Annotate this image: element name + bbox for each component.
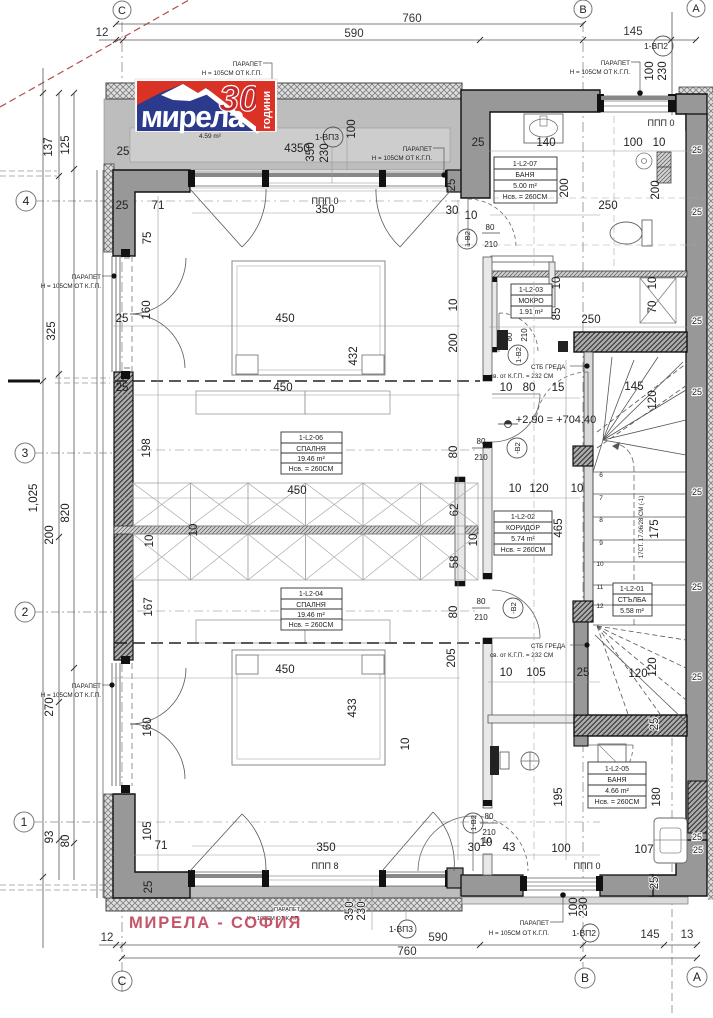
parapet label top-right [570,60,631,76]
svg-text:7: 7 [599,495,603,502]
bath1 ducts [657,152,671,167]
svg-text:КОРИДОР: КОРИДОР [506,525,540,532]
south wall of bedroom 2 : window band [188,868,463,888]
corridor/bath2 thin wall [488,715,576,723]
upper winder fan [593,357,686,472]
svg-text:70: 70 [647,301,659,314]
VP circles [323,36,673,942]
mokro east wall [549,262,555,307]
south parapet crosshatch [106,898,462,911]
parapet label top-left [202,61,263,77]
west door arcs bottom window [130,668,186,779]
svg-text:СПАЛНЯ: СПАЛНЯ [296,446,326,453]
left axis circles [14,191,36,832]
bath2 [588,762,646,808]
STB GREDA labels [490,364,566,659]
svg-text:120: 120 [529,483,548,495]
svg-text:19.46 m²: 19.46 m² [297,612,325,619]
svg-text:-В2: -В2 [513,442,522,454]
svg-text:19.46 m²: 19.46 m² [297,456,325,463]
svg-text:СТБ ГРЕДА: СТБ ГРЕДА [531,643,566,650]
svg-text:ПАРАПЕТ: ПАРАПЕТ [72,683,101,690]
svg-text:200: 200 [44,525,56,544]
svg-text:Н = 105СМ ОТ К.Г.П.: Н = 105СМ ОТ К.Г.П. [489,930,550,937]
bedroom1 [281,432,342,474]
left small guide dashes [0,171,110,890]
svg-text:200: 200 [559,178,571,197]
svg-text:450: 450 [287,485,306,497]
svg-text:100: 100 [644,61,656,80]
svg-text:МИРЕЛА - СОФИЯ: МИРЕЛА - СОФИЯ [129,914,302,932]
svg-text:230: 230 [356,901,368,920]
svg-text:25: 25 [692,207,702,217]
svg-text:210: 210 [474,613,488,622]
mid partition hatched wall between bedrooms [114,526,478,534]
svg-text:105: 105 [526,667,545,679]
east wall white niche in bath2 [688,781,707,833]
top right window [600,96,676,112]
svg-text:св. от К.Г.П. = 232 СМ: св. от К.Г.П. = 232 СМ [490,373,553,380]
stair west wall thin [584,352,593,622]
svg-text:12: 12 [101,932,114,944]
svg-text:160: 160 [142,717,154,736]
svg-text:25: 25 [116,382,129,394]
axis circles top [113,0,705,19]
svg-text:Нсв. = 260СМ: Нсв. = 260СМ [289,622,334,629]
svg-text:120: 120 [647,390,659,409]
svg-text:11: 11 [597,584,604,591]
svg-text:760: 760 [402,13,421,25]
north parapet crosshatch [106,83,462,99]
west door arcs top window [124,258,186,368]
svg-text:Нсв. = 260СМ: Нсв. = 260СМ [501,547,546,554]
parapet label left-upper [41,274,102,290]
svg-text:25: 25 [649,877,661,890]
svg-text:80: 80 [505,332,514,341]
bottom dimension rows [99,945,697,958]
svg-text:1-L2-04: 1-L2-04 [299,591,323,598]
svg-text:1-В2: 1-В2 [469,815,478,831]
svg-text:Нсв. = 260СМ: Нсв. = 260СМ [503,194,548,201]
svg-text:+2.90 = +704.40: +2.90 = +704.40 [516,414,596,426]
svg-text:10: 10 [551,277,563,290]
svg-text:80: 80 [486,223,495,232]
svg-text:450: 450 [275,313,294,325]
axis circles bottom [112,967,707,991]
svg-text:80: 80 [448,446,460,459]
red boundary dashed line [0,0,189,107]
svg-text:10: 10 [448,299,460,312]
svg-text:210: 210 [474,453,488,462]
svg-text:180: 180 [651,787,663,806]
corridor door to bedroom2 south [418,816,528,871]
bath2 cabinet [654,818,687,863]
svg-text:590: 590 [428,932,447,944]
svg-text:250: 250 [598,200,617,212]
bath2 door [588,745,633,790]
svg-text:80: 80 [485,812,494,821]
interior dimension guide lines [113,130,707,930]
hatched slab wall under bathroom1 [489,271,687,277]
svg-text:760: 760 [397,946,416,958]
svg-text:1-ВП3: 1-ВП3 [389,924,413,934]
mokro west wall [489,277,497,352]
cabinets along dashed line bedroom1 [196,391,390,414]
bath2 west wall [574,622,588,715]
svg-text:10: 10 [647,277,659,290]
svg-text:25: 25 [692,387,702,397]
svg-text:17СТ. 17.06/28 СМ (-1): 17СТ. 17.06/28 СМ (-1) [639,496,645,558]
svg-text:25: 25 [692,316,702,326]
svg-text:6: 6 [599,472,603,479]
svg-text:10: 10 [653,137,666,149]
svg-text:ПАРАПЕТ: ПАРАПЕТ [274,907,301,913]
svg-text:Н = 105СМ ОТ К.Г.П.: Н = 105СМ ОТ К.Г.П. [570,69,631,76]
entry door from stair [536,372,588,424]
mokro [511,284,552,318]
south bedroom2 door arcs [190,812,454,871]
svg-text:25: 25 [446,179,458,192]
axis guide lines across plan [118,201,600,822]
svg-text:A: A [692,3,700,15]
bedroom2 [281,588,342,630]
svg-text:10: 10 [480,837,493,849]
north wall of bedroom 1 : window band [188,170,463,192]
svg-text:C: C [118,5,126,17]
south wall right section [461,875,523,896]
stair X box [640,278,676,323]
svg-text:125: 125 [60,135,72,154]
svg-text:25: 25 [117,146,130,158]
west wall hatched between windows [114,372,133,660]
svg-text:Н = 105СМ ОТ К.Г.П.: Н = 105СМ ОТ К.Г.П. [41,283,102,290]
svg-text:БАНЯ: БАНЯ [607,777,626,784]
svg-text:ПАРАПЕТ: ПАРАПЕТ [403,146,432,153]
NE corner [679,87,713,94]
svg-text:820: 820 [60,503,72,522]
west window 1 (top) [112,256,120,372]
svg-text:1-L2-06: 1-L2-06 [299,435,323,442]
svg-text:1-L2-05: 1-L2-05 [605,766,629,773]
svg-text:години: години [261,91,273,129]
parapet label bottom-center-left [246,907,300,922]
svg-text:230: 230 [578,897,590,916]
svg-text:85: 85 [551,308,563,321]
svg-text:5.74 m²: 5.74 m² [511,536,535,543]
svg-text:1,025: 1,025 [28,484,40,513]
svg-text:145: 145 [623,26,642,38]
svg-text:1-L2-07: 1-L2-07 [513,161,537,168]
south terrace strip [135,886,460,899]
svg-text:13: 13 [681,929,694,941]
svg-text:450: 450 [273,382,292,394]
svg-text:58: 58 [449,556,461,569]
svg-text:25: 25 [692,832,702,842]
svg-text:25: 25 [116,313,129,325]
svg-text:12: 12 [96,27,109,39]
svg-text:205: 205 [446,648,458,667]
west parapet thin lines [97,170,103,898]
svg-text:71: 71 [155,840,168,852]
svg-text:30: 30 [219,78,259,119]
bath1 [494,157,557,203]
svg-text:325: 325 [46,321,58,340]
svg-text:80: 80 [477,437,486,446]
svg-text:БАНЯ: БАНЯ [515,172,534,179]
svg-text:1-ВП3: 1-ВП3 [315,132,339,142]
svg-text:10: 10 [596,561,604,568]
svg-text:9: 9 [599,540,603,547]
svg-text:МОКРО: МОКРО [518,298,544,305]
svg-text:10: 10 [500,382,513,394]
svg-text:350: 350 [344,901,356,920]
svg-text:25: 25 [692,145,702,155]
corridor west wall segments [483,257,492,875]
bath1 sink [524,114,563,143]
svg-text:140: 140 [536,137,555,149]
axis C vertical [122,12,672,1014]
svg-text:10: 10 [500,667,513,679]
svg-text:ПАРАПЕТ: ПАРАПЕТ [233,61,262,68]
svg-text:Н = 105СМ ОТ К.Г.П.: Н = 105СМ ОТ К.Г.П. [41,692,102,699]
parapet label left-lower [41,683,102,699]
svg-text:25: 25 [116,200,129,212]
step numbers [596,472,604,610]
svg-text:10: 10 [465,210,478,222]
svg-text:СПАЛНЯ: СПАЛНЯ [296,602,326,609]
svg-text:195: 195 [553,787,565,806]
left vertical dimension chains [43,68,74,948]
svg-text:200: 200 [448,333,460,352]
svg-text:10: 10 [571,483,584,495]
svg-text:25: 25 [692,582,702,592]
door 80/210 fraction labels [472,223,529,845]
svg-text:ПАРАПЕТ: ПАРАПЕТ [601,60,630,67]
svg-text:1-L2-02: 1-L2-02 [511,514,535,521]
svg-text:10: 10 [188,524,200,537]
parapet label top-center [372,146,433,162]
svg-text:B: B [579,4,586,16]
svg-text:1-ВП2: 1-ВП2 [572,928,596,938]
svg-text:Н = 105СМ ОТ К.Г.П.: Н = 105СМ ОТ К.Г.П. [372,155,433,162]
north terrace grey floor [104,99,462,170]
stair west wall hatched blocks [573,446,593,466]
svg-text:80: 80 [477,597,486,606]
parapet label bottom-right [489,920,550,937]
wardrobe divider wall in bedrooms [455,477,465,586]
stair [613,583,652,616]
lower fan dashed [597,626,686,714]
svg-text:1-В2: 1-В2 [463,231,472,247]
svg-text:Н = 105СМ ОТ К.Г.П.: Н = 105СМ ОТ К.Г.П. [202,70,263,77]
svg-text:432: 432 [348,346,360,365]
bath1 drain [636,153,652,169]
bed bedroom1 [232,261,385,375]
top dimension rows [99,24,697,40]
svg-text:СТБ ГРЕДА: СТБ ГРЕДА [531,364,566,371]
interior dim texts [116,137,666,893]
svg-text:198: 198 [141,438,153,457]
svg-text:167: 167 [143,597,155,616]
svg-text:270: 270 [44,697,56,716]
svg-text:450: 450 [275,664,294,676]
corridor door to bedroom1 [492,394,540,442]
svg-text:100: 100 [623,137,642,149]
SW corner wall [104,794,114,898]
stair top hatched wall [574,332,687,352]
svg-text:1-ВП2: 1-ВП2 [644,41,668,51]
svg-text:93: 93 [44,831,56,844]
svg-text:145: 145 [624,381,643,393]
svg-text:1-L2-03: 1-L2-03 [519,287,543,294]
svg-text:B: B [581,971,589,985]
svg-text:120: 120 [647,657,659,676]
svg-text:80: 80 [523,382,536,394]
svg-text:Нсв. = 260СМ: Нсв. = 260СМ [595,799,640,806]
rotated dim texts [141,61,669,920]
svg-text:105: 105 [142,821,154,840]
svg-text:43: 43 [503,842,516,854]
svg-text:3: 3 [22,446,29,460]
SE corner [650,840,707,896]
svg-text:350: 350 [315,204,334,216]
svg-text:ПАРАПЕТ: ПАРАПЕТ [520,920,549,927]
mokro door [499,313,538,352]
svg-text:160: 160 [141,300,153,319]
bath1 toilet [642,220,652,246]
svg-text:210: 210 [520,328,529,342]
svg-text:4: 4 [23,194,30,208]
svg-text:25: 25 [692,487,702,497]
svg-text:Нсв. = 260СМ: Нсв. = 260СМ [289,466,334,473]
bottom right window [523,878,600,890]
svg-text:15: 15 [552,382,565,394]
left axis stub lines [34,201,120,822]
bath2 shower [598,744,626,772]
door spec circles [457,229,528,833]
corridor south plumbing [490,746,499,775]
svg-text:10: 10 [144,535,156,548]
svg-text:1-В2: 1-В2 [514,347,523,363]
svg-text:5.58 m²: 5.58 m² [620,608,644,615]
svg-text:75: 75 [142,232,154,245]
svg-text:25: 25 [472,137,485,149]
svg-text:ППП 0: ППП 0 [648,118,675,128]
svg-text:1.91 m²: 1.91 m² [519,309,543,316]
svg-text:433: 433 [347,698,359,717]
bed bedroom2 [232,650,385,765]
svg-text:25: 25 [649,718,661,731]
svg-text:465: 465 [553,518,565,537]
svg-text:120: 120 [628,668,647,680]
svg-text:25: 25 [692,672,702,682]
bathroom1 south thin wall [491,256,553,262]
PPP window labels [312,118,675,871]
corridor door to bedroom2 [492,590,540,638]
svg-text:св. от К.Г.П. = 232 СМ: св. от К.Г.П. = 232 СМ [490,652,553,659]
svg-text:30: 30 [446,205,459,217]
svg-text:8: 8 [599,517,603,524]
NE block : top wall of bathroom 1 [461,90,600,198]
svg-text:10: 10 [400,738,412,751]
walk line with arrow [618,444,634,625]
north bedroom1 door arcs [190,189,452,247]
svg-text:СТЪЛБА: СТЪЛБА [618,597,647,604]
svg-text:-В2: -В2 [509,602,518,614]
svg-text:250: 250 [581,314,600,326]
svg-text:ППП 0: ППП 0 [574,861,601,871]
svg-text:100: 100 [551,843,570,855]
west window 2 (bottom) [112,663,120,786]
svg-text:30: 30 [468,842,481,854]
bath2 north hatched wall [574,715,687,736]
svg-text:A: A [693,970,701,984]
svg-text:4.59 m²: 4.59 m² [199,133,222,140]
corridor [494,511,552,555]
svg-text:210: 210 [484,240,498,249]
svg-text:145: 145 [640,929,659,941]
svg-text:80: 80 [448,606,460,619]
svg-text:25: 25 [693,845,703,855]
svg-text:2: 2 [22,605,29,619]
right edge 25 labels [692,145,703,855]
bathroom1 door [468,199,516,247]
svg-text:175: 175 [649,519,661,538]
svg-text:350: 350 [316,842,335,854]
svg-text:10: 10 [468,534,480,547]
svg-text:1-L2-01: 1-L2-01 [620,586,644,593]
svg-text:107: 107 [634,844,653,856]
mokro washer [497,330,508,350]
svg-text:25: 25 [577,667,590,679]
svg-text:1: 1 [21,815,28,829]
svg-text:230: 230 [319,143,331,162]
svg-text:62: 62 [449,504,461,517]
svg-text:80: 80 [60,835,72,848]
svg-text:230: 230 [657,61,669,80]
vertical light guides [460,116,706,860]
svg-text:4.66 m²: 4.66 m² [605,788,629,795]
svg-text:5.00 m²: 5.00 m² [513,183,537,190]
svg-text:ПАРАПЕТ: ПАРАПЕТ [72,274,101,281]
svg-text:25: 25 [143,881,155,894]
svg-text:10: 10 [509,483,522,495]
svg-text:C: C [118,974,127,988]
svg-text:200: 200 [650,180,662,199]
east wall [686,114,707,876]
NW corner wall [104,164,114,252]
svg-text:137: 137 [43,137,55,156]
svg-text:ППП 8: ППП 8 [312,861,339,871]
svg-text:12: 12 [596,603,604,610]
svg-text:350: 350 [305,142,317,161]
svg-text:590: 590 [344,28,363,40]
svg-text:71: 71 [152,200,165,212]
svg-text:100: 100 [346,119,358,138]
